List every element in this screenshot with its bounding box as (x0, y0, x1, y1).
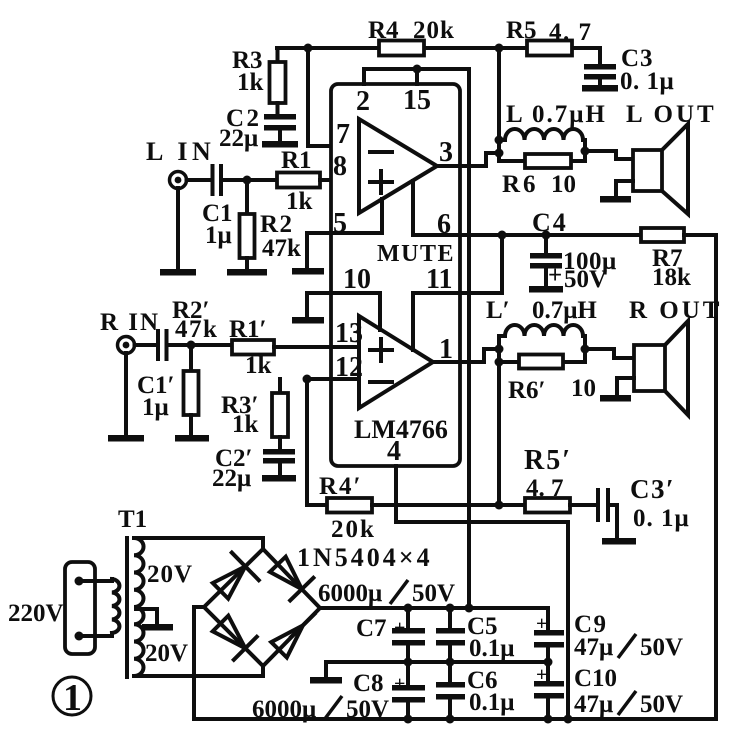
svg-text:50V: 50V (564, 266, 607, 293)
resistor R5' (525, 498, 570, 513)
label T1 (118, 506, 147, 533)
label R5' value (524, 445, 572, 502)
pin number 3 (439, 137, 453, 168)
node junction V- bottom (564, 715, 573, 724)
wire pins 2/15 V+ rail (364, 69, 469, 609)
wire pin 12 line (307, 377, 359, 381)
svg-text:0.1μ: 0.1μ (469, 635, 514, 662)
svg-text:T1: T1 (118, 506, 147, 533)
svg-text:+: + (548, 262, 562, 289)
node junction rail/riser (304, 44, 313, 53)
svg-text:6000μ: 6000μ (318, 580, 382, 607)
wire jack L stem (176, 188, 180, 270)
wire L right node (581, 140, 590, 161)
svg-text:4: 4 (387, 436, 401, 467)
label C4 value (548, 248, 617, 293)
transformer T1 secondary coil (134, 538, 144, 676)
label C2 value (219, 105, 262, 152)
wire to speaker R (585, 349, 634, 358)
ground mid rail (310, 662, 342, 684)
node L-IN label (146, 137, 215, 166)
svg-text:C3′: C3′ (630, 474, 675, 504)
svg-text:0. 1μ: 0. 1μ (633, 505, 690, 532)
svg-text:50V: 50V (640, 691, 683, 718)
node junction mute/C4 (542, 231, 551, 240)
svg-text:R2: R2 (260, 211, 294, 238)
resistor R3 (270, 62, 286, 103)
svg-text:20k: 20k (331, 516, 376, 543)
resistor R1' (232, 340, 274, 355)
capacitor C1' (158, 331, 167, 359)
wire R3' to C2' (278, 437, 282, 450)
label R4' value (319, 473, 376, 543)
resistor R6' (499, 355, 585, 369)
wire jack L to C1 (187, 178, 211, 182)
svg-text:R5: R5 (506, 17, 537, 44)
pin number 7 (336, 119, 350, 150)
wire R output node (497, 336, 501, 505)
label LM4766 (354, 415, 448, 444)
transformer T1 primary coil (112, 579, 119, 636)
wire pin12 riser to R4' (307, 379, 327, 505)
wire pin 6 mute line (413, 181, 641, 235)
label L value (506, 101, 607, 128)
label C3' value (630, 474, 690, 532)
wire to speaker L (585, 151, 633, 159)
ground center tap (142, 624, 173, 631)
node junction out L (495, 149, 504, 158)
label C8 (353, 670, 405, 697)
label 20V bottom (145, 640, 188, 667)
ground C3' (602, 538, 636, 545)
wire L' right node (581, 336, 590, 362)
capacitor C2 (264, 114, 296, 142)
label C1' value (137, 372, 175, 421)
label R OUT (629, 297, 722, 324)
svg-text:22μ: 22μ (219, 125, 258, 152)
svg-text:+: + (536, 613, 547, 635)
label MUTE (377, 241, 455, 267)
svg-text:5: 5 (333, 208, 347, 239)
label C2' value (212, 445, 253, 492)
wire secondary top to bridge (134, 538, 263, 550)
svg-text:11: 11 (426, 264, 452, 295)
wire R3' stub (278, 379, 282, 393)
label R6' value (508, 375, 596, 404)
svg-text:C10: C10 (574, 665, 617, 692)
svg-text:50V: 50V (346, 696, 389, 723)
label R4 value (368, 17, 455, 44)
svg-text:20V: 20V (145, 640, 188, 667)
ground pin 10 (292, 317, 324, 324)
pin number 2 (356, 86, 370, 117)
svg-text:18k: 18k (652, 264, 691, 291)
svg-text:1μ: 1μ (142, 394, 169, 421)
svg-text:10: 10 (343, 264, 371, 295)
pin number 10 (343, 264, 371, 295)
pin 15 stub (413, 65, 422, 85)
svg-text:L: L (506, 101, 523, 128)
wire riser to pin 7 (308, 48, 359, 146)
wire C1 to R1 (223, 178, 277, 182)
svg-text:+: + (394, 617, 405, 639)
svg-text:R OUT: R OUT (629, 297, 722, 324)
svg-text:20k: 20k (413, 17, 455, 44)
svg-text:47μ: 47μ (574, 691, 613, 718)
pin number 15 (403, 85, 431, 116)
svg-text:8: 8 (333, 151, 347, 182)
svg-text:22μ: 22μ (212, 465, 251, 492)
label R3' value (221, 392, 259, 438)
wire pin 11 riser (413, 235, 502, 350)
ground speaker L (600, 196, 631, 203)
svg-text:1k: 1k (232, 411, 259, 438)
capacitor C6 (436, 662, 465, 724)
wire pin 3 output jog (437, 153, 499, 166)
pin number 11 (426, 264, 452, 295)
svg-text:1k: 1k (286, 188, 313, 215)
node junction pin12 (303, 375, 312, 384)
pin number 1 (439, 334, 453, 365)
ground speaker R (600, 395, 631, 402)
svg-text:47k: 47k (262, 235, 301, 262)
node R-IN label (100, 309, 160, 336)
label C5 value (467, 613, 514, 662)
wire secondary bottom to bridge (134, 665, 263, 676)
ground C2 (262, 141, 298, 148)
svg-text:1N5404×4: 1N5404×4 (297, 543, 433, 572)
svg-text:10: 10 (551, 171, 576, 198)
wire top feedback rail (277, 46, 600, 50)
node junction out R (495, 345, 504, 354)
label 220V (8, 600, 64, 627)
label 6000u/50V top (318, 580, 455, 607)
pin number 6 (437, 209, 451, 240)
label 1N5404x4 (297, 543, 433, 572)
inductor L (499, 129, 583, 140)
capacitor C10 (534, 662, 564, 724)
capacitor C3 (584, 64, 616, 86)
svg-text:15: 15 (403, 85, 431, 116)
svg-text:1k: 1k (237, 69, 264, 96)
svg-text:7: 7 (336, 119, 350, 150)
ground jack R (108, 435, 144, 442)
resistor R3' (272, 393, 288, 437)
capacitor C4 (530, 235, 562, 287)
capacitor C5 (436, 604, 465, 667)
svg-text:47μ: 47μ (574, 634, 613, 661)
wire jack R stem (124, 353, 128, 436)
diode D3 (213, 616, 257, 660)
resistor R2 (240, 214, 255, 258)
wire R5' to C3' (570, 503, 596, 507)
label 6000u/50V bottom (252, 696, 389, 723)
svg-text:C8: C8 (353, 670, 384, 697)
wire pin 10 to ground (307, 293, 380, 330)
ground C2' (262, 475, 296, 482)
label 20V top (147, 561, 193, 588)
resistor R1 (277, 173, 320, 188)
svg-text:R6: R6 (502, 171, 539, 198)
wire L output node (497, 48, 501, 161)
ground C3 (582, 85, 618, 92)
ground R2 (227, 269, 267, 276)
svg-text:2: 2 (356, 86, 370, 117)
speaker L (633, 124, 688, 214)
svg-text:L IN: L IN (146, 137, 215, 166)
diode D1 (213, 553, 259, 599)
svg-text:L′: L′ (486, 297, 510, 324)
node junction C1/R2 (243, 176, 252, 185)
wire R4' to R5' rail (372, 503, 525, 507)
resistor R7 (641, 228, 684, 242)
wire mid rail (326, 660, 548, 664)
wire R1 to pin 8 (320, 178, 359, 182)
wire R2' stub (189, 345, 193, 371)
svg-text:+: + (536, 664, 547, 686)
diode D2 (270, 557, 314, 601)
speaker R (634, 321, 688, 415)
pin number 13 (335, 318, 363, 349)
label L OUT (626, 101, 717, 128)
plus input mark U1B (370, 339, 392, 361)
minus input mark U1B (370, 380, 392, 384)
svg-text:6000μ: 6000μ (252, 696, 316, 723)
label C10 value (536, 664, 683, 718)
wire rail to R3 (276, 48, 280, 62)
svg-text:R4′: R4′ (319, 473, 363, 500)
wire bridge minus to bottom rail (194, 607, 204, 719)
node junction rail/output R (495, 501, 504, 510)
resistor R4' (327, 498, 372, 513)
wire R2 stub (245, 180, 249, 214)
wire bottom rail (194, 717, 716, 721)
capacitor C7 (392, 604, 425, 667)
svg-text:C4: C4 (532, 208, 568, 237)
svg-text:1μ: 1μ (205, 222, 232, 249)
label C9 value (536, 611, 683, 661)
wire pin 1 output jog (433, 349, 499, 362)
svg-text:0.7μH: 0.7μH (532, 101, 607, 128)
svg-text:4. 7: 4. 7 (549, 19, 593, 46)
capacitor C3' (598, 490, 608, 520)
label C4 (532, 208, 568, 237)
svg-text:R1: R1 (281, 147, 312, 174)
wire bridge plus rail (320, 606, 548, 610)
svg-text:+: + (394, 673, 405, 695)
op-amp U1A triangle (359, 119, 437, 213)
svg-text:6: 6 (437, 209, 451, 240)
diode D4 (271, 614, 314, 658)
node junction R6' (495, 358, 504, 367)
capacitor C2' (263, 449, 295, 476)
svg-text:L OUT: L OUT (626, 101, 717, 128)
capacitor C8 (392, 662, 425, 724)
wire R2 to ground (245, 258, 249, 270)
label R1' value (229, 316, 272, 379)
input jack R (118, 337, 135, 354)
label C3 value (620, 45, 674, 95)
label C6 value (467, 667, 514, 716)
resistor R6 (499, 154, 585, 168)
connector 220V plug (65, 562, 95, 654)
svg-text:50V: 50V (640, 634, 683, 661)
ground R2' (175, 435, 209, 442)
pin number 4 (387, 436, 401, 467)
wire rail to C3 (598, 48, 602, 65)
label L' value (486, 297, 597, 324)
inductor L' (499, 325, 583, 336)
minus input mark U1A (370, 150, 392, 154)
label C7 (356, 615, 405, 642)
wire R7 to V- border (684, 235, 716, 719)
input jack L (170, 172, 187, 189)
resistor R4 (379, 41, 424, 56)
label R1 value (281, 147, 313, 215)
ground C4 (529, 286, 563, 293)
bridge rectifier diamond (204, 549, 320, 666)
label R7 value (652, 245, 691, 291)
wire R2' to ground (189, 415, 193, 436)
svg-text:0.7μH: 0.7μH (532, 297, 597, 324)
node junction mute/pin11 (498, 231, 507, 240)
svg-text:220V: 220V (8, 600, 64, 627)
wire R1' to pin 13 (274, 345, 359, 349)
wire C3' to ground (610, 505, 617, 539)
svg-text:R1′: R1′ (229, 316, 267, 343)
wire jack R to C1' (135, 343, 156, 347)
label R5 value (506, 17, 593, 46)
svg-text:4. 7: 4. 7 (526, 475, 564, 502)
svg-text:R IN: R IN (100, 309, 160, 336)
plus input mark U1A (370, 171, 392, 193)
wire pin 5 to ground (307, 199, 382, 269)
op-amp U1B triangle (359, 316, 433, 408)
wire R3 to C2 (276, 103, 280, 115)
svg-text:0.1μ: 0.1μ (469, 689, 514, 716)
transformer T1 core (125, 538, 129, 677)
label R2 value (260, 211, 301, 262)
wire speaker L to ground (616, 181, 633, 197)
resistor R2' (184, 371, 199, 415)
svg-text:R6′: R6′ (508, 377, 546, 404)
pin number 12 (335, 352, 363, 383)
wire C1' to R1' (168, 343, 232, 347)
node junction V+ rail (465, 604, 474, 613)
svg-text:3: 3 (439, 137, 453, 168)
svg-text:1k: 1k (245, 352, 272, 379)
figure number 1 (53, 677, 91, 719)
node junction rail/zobel (495, 44, 504, 53)
resistor R5 (527, 41, 572, 56)
label C1 value (202, 200, 233, 249)
svg-text:R5′: R5′ (524, 445, 572, 476)
svg-text:20V: 20V (147, 561, 193, 588)
svg-text:10: 10 (571, 375, 596, 402)
node junction C1'/R2' (187, 341, 196, 350)
svg-text:47k: 47k (175, 316, 218, 343)
pin number 8 (333, 151, 347, 182)
wire pin 4 V- (396, 466, 568, 719)
wire speaker R to ground (617, 378, 634, 396)
label R3 value (232, 47, 264, 96)
svg-text:0. 1μ: 0. 1μ (620, 68, 674, 95)
svg-text:1: 1 (63, 677, 82, 719)
label R6 value (502, 171, 576, 198)
node junction coil L (495, 136, 504, 145)
capacitor C9 (534, 608, 564, 667)
svg-text:R4: R4 (368, 17, 399, 44)
ground jack L (160, 269, 196, 276)
pin number 5 (333, 208, 347, 239)
svg-text:C7: C7 (356, 615, 387, 642)
op-amp IC LM4766 outer box (331, 84, 460, 466)
ground pin 5 (292, 268, 324, 275)
label R2' value (172, 297, 218, 343)
wire plug to primary (79, 581, 112, 636)
capacitor C1 (213, 166, 222, 194)
svg-text:13: 13 (335, 318, 363, 349)
svg-text:50V: 50V (412, 580, 455, 607)
wire center tap (136, 609, 157, 625)
